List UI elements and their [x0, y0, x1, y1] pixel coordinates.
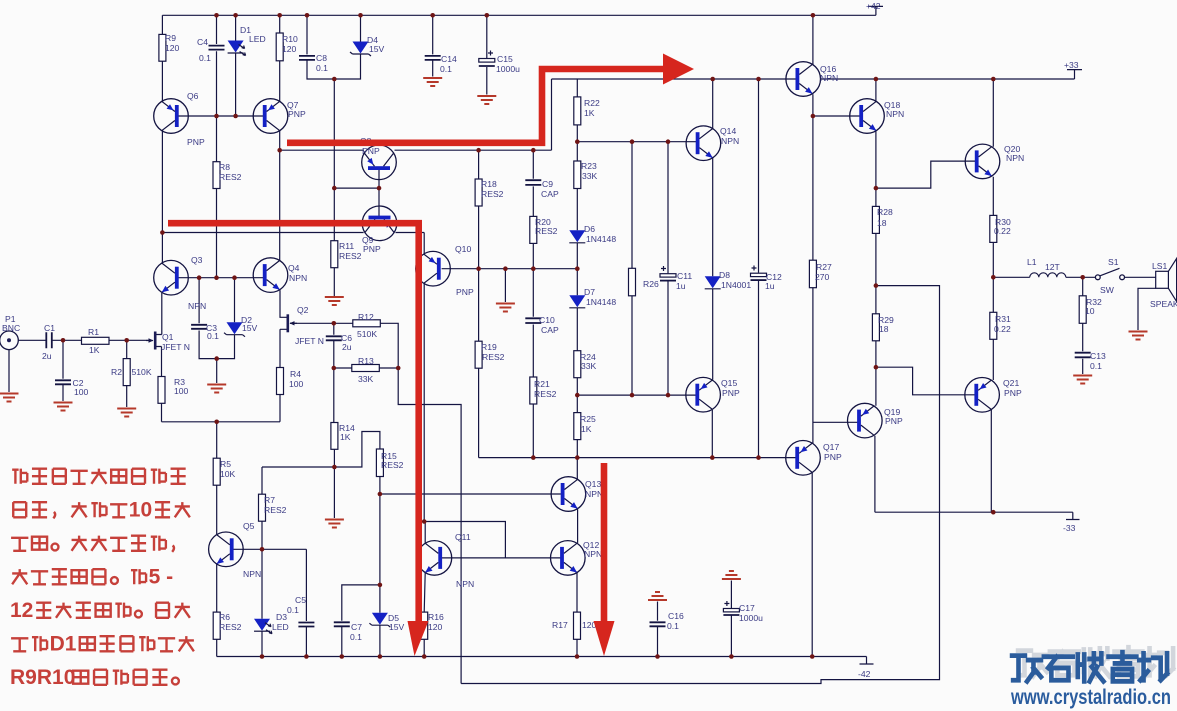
- wire: [479, 457, 798, 459]
- svg-text:15V: 15V: [369, 44, 385, 54]
- svg-text:C7: C7: [351, 622, 362, 632]
- diode D6 1N4148: [569, 230, 585, 243]
- capacitor C9: [525, 180, 541, 185]
- svg-text:1K: 1K: [581, 424, 592, 434]
- svg-text:12: 12: [10, 599, 33, 622]
- junction: [874, 77, 879, 82]
- svg-text:NPN: NPN: [188, 301, 206, 311]
- wire: [486, 15, 488, 94]
- resistor R27: [809, 260, 816, 288]
- junction: [214, 114, 219, 119]
- junction: [756, 455, 761, 460]
- svg-text:0.22: 0.22: [994, 226, 1011, 236]
- wire: [261, 467, 263, 657]
- junction: [655, 654, 660, 659]
- svg-text:RES2: RES2: [534, 389, 557, 399]
- transistor Q12: [551, 541, 586, 576]
- junction: [575, 393, 580, 398]
- wire: [432, 15, 434, 76]
- svg-text:1K: 1K: [89, 345, 100, 355]
- wire: [62, 340, 64, 401]
- svg-text:R11: R11: [339, 241, 354, 251]
- svg-text:10: 10: [1085, 306, 1095, 316]
- svg-text:510K: 510K: [357, 329, 377, 339]
- junction: [810, 654, 815, 659]
- wire: [991, 277, 993, 512]
- speaker LS1: [1156, 271, 1169, 288]
- junction: [476, 266, 481, 271]
- svg-text:R9: R9: [165, 33, 176, 43]
- resistor R12: [353, 320, 381, 327]
- resistor R21: [530, 377, 537, 404]
- svg-text:R22: R22: [584, 98, 600, 108]
- capacitor C11 electrolytic: [660, 274, 676, 277]
- wire: [333, 449, 335, 518]
- junction: [214, 420, 219, 425]
- transistor Q17: [786, 441, 821, 476]
- wire: [812, 94, 861, 656]
- wire: [424, 573, 425, 657]
- resistor R10: [276, 33, 283, 61]
- ground Q10 base network: [496, 304, 515, 312]
- wire: [162, 421, 281, 423]
- resistor R18: [475, 179, 482, 206]
- junction: [531, 148, 536, 153]
- ground under C2: [54, 403, 73, 411]
- wire: [1138, 288, 1156, 330]
- junction: [233, 114, 238, 119]
- svg-text:100: 100: [74, 387, 89, 397]
- svg-text:R25: R25: [580, 414, 596, 424]
- resistor R13: [352, 365, 380, 372]
- junction: [575, 455, 580, 460]
- resistor R5: [213, 458, 220, 485]
- junction: [197, 275, 202, 280]
- svg-text:NPN: NPN: [289, 273, 307, 283]
- svg-text:R23: R23: [581, 161, 597, 171]
- transistor Q4: [253, 258, 288, 293]
- wire: [667, 142, 669, 395]
- wire: [442, 268, 578, 270]
- capacitor C7: [334, 622, 350, 626]
- wire: [334, 169, 379, 218]
- wire: [333, 79, 335, 295]
- junction: [811, 114, 816, 119]
- junction: [396, 366, 401, 371]
- wire: [992, 79, 994, 277]
- svg-text:1N4148: 1N4148: [586, 234, 616, 244]
- svg-text:R6: R6: [219, 612, 230, 622]
- ground under R14: [325, 520, 344, 528]
- svg-text:0.1: 0.1: [199, 53, 211, 63]
- resistor R22: [574, 97, 581, 125]
- wire: [216, 116, 218, 278]
- wire: [379, 477, 381, 585]
- svg-text:PNP: PNP: [362, 146, 380, 156]
- resistor R32: [1079, 296, 1086, 324]
- transistor Q3: [154, 260, 189, 295]
- svg-text:NPN: NPN: [456, 579, 474, 589]
- svg-text:2u: 2u: [42, 351, 52, 361]
- wire: [712, 79, 714, 380]
- svg-text:RES2: RES2: [481, 189, 504, 199]
- svg-text:0.1: 0.1: [287, 605, 299, 615]
- junction: [874, 186, 879, 191]
- svg-text:Q21: Q21: [1003, 378, 1019, 388]
- node +42 terminal: [868, 6, 883, 15]
- svg-text:RES2: RES2: [381, 460, 404, 470]
- wire: [126, 340, 128, 407]
- svg-text:Q17: Q17: [823, 442, 839, 452]
- junction: [422, 519, 427, 524]
- svg-text:NPN: NPN: [721, 136, 739, 146]
- transistor Q2 JFET: [282, 314, 298, 332]
- junction: [378, 492, 383, 497]
- red text line 4: [12, 569, 27, 584]
- ground under speaker: [1129, 332, 1148, 340]
- wire: [199, 278, 234, 383]
- resistor R19: [475, 341, 482, 368]
- wire: [279, 15, 281, 101]
- wire: [290, 322, 334, 324]
- junction: [531, 455, 536, 460]
- transistor Q10: [416, 251, 451, 286]
- junction: [332, 321, 337, 326]
- capacitor C6: [326, 336, 342, 340]
- svg-text:C5: C5: [295, 595, 306, 605]
- svg-text:PNP: PNP: [288, 109, 306, 119]
- junction: [503, 266, 508, 271]
- svg-text:D7: D7: [584, 287, 595, 297]
- transistor Q5: [209, 532, 244, 567]
- wire: [424, 522, 505, 558]
- resistor R28: [872, 206, 879, 233]
- svg-text:NPN: NPN: [886, 109, 904, 119]
- svg-text:1N4148: 1N4148: [586, 297, 616, 307]
- capacitor C10: [525, 318, 541, 323]
- wire: [232, 549, 307, 656]
- capacitor C15 electrolytic: [479, 59, 495, 63]
- svg-text:PNP: PNP: [824, 452, 842, 462]
- junction: [476, 148, 481, 153]
- junction: [214, 13, 219, 18]
- resistor R16: [421, 612, 428, 639]
- wire: [461, 286, 939, 684]
- svg-text:PNP: PNP: [885, 416, 903, 426]
- svg-text:R1: R1: [88, 327, 99, 337]
- svg-text:R12: R12: [358, 312, 374, 322]
- svg-text:1K: 1K: [584, 108, 595, 118]
- wire: [876, 367, 976, 395]
- junction: [233, 13, 238, 18]
- wire: [812, 15, 814, 64]
- resistor R3: [158, 377, 165, 404]
- svg-text:Q5: Q5: [243, 521, 255, 531]
- svg-text:R27: R27: [816, 262, 832, 272]
- svg-text:C17: C17: [739, 603, 755, 613]
- svg-text:LS1: LS1: [1152, 261, 1168, 271]
- junction: [277, 13, 282, 18]
- svg-text:CAP: CAP: [541, 189, 559, 199]
- junction: [377, 186, 382, 191]
- wire: [711, 410, 713, 458]
- wire: [161, 131, 163, 263]
- wire: [280, 149, 552, 151]
- capacitor C4: [209, 46, 225, 50]
- junction: [666, 139, 671, 144]
- junction: [305, 13, 310, 18]
- capacitor C14: [425, 56, 441, 60]
- wire: [532, 150, 534, 457]
- wire: [307, 15, 361, 79]
- wire: [178, 277, 265, 279]
- junction: [332, 465, 337, 470]
- svg-text:BNC: BNC: [2, 323, 20, 333]
- transistor Q20: [965, 144, 1000, 179]
- resistor R6: [213, 612, 220, 639]
- transistor Q14: [686, 126, 721, 161]
- red arrow annotation 3: [601, 463, 608, 622]
- svg-text:Q4: Q4: [288, 263, 300, 273]
- wire: [262, 432, 380, 468]
- connector P1 BNC: [0, 331, 18, 350]
- wire: [657, 602, 659, 657]
- red arrow annotation 2: [168, 223, 419, 622]
- ground under R11: [333, 295, 335, 297]
- svg-text:PNP: PNP: [722, 388, 740, 398]
- svg-text:Q13: Q13: [585, 479, 601, 489]
- wire: [576, 509, 579, 656]
- resistor R29: [872, 314, 879, 341]
- wire: [380, 493, 561, 495]
- resistor R23: [574, 161, 581, 189]
- svg-text:RES2: RES2: [535, 226, 558, 236]
- svg-text:C16: C16: [668, 611, 684, 621]
- junction: [729, 654, 734, 659]
- svg-text:0.1: 0.1: [667, 621, 679, 631]
- watermark site name: [1012, 656, 1041, 682]
- svg-text:510K: 510K: [132, 367, 152, 377]
- svg-text:LED: LED: [272, 622, 289, 632]
- wire: [1082, 277, 1084, 374]
- resistor R30: [990, 215, 997, 242]
- wire: [161, 15, 163, 101]
- switch S1 SW: [1095, 275, 1100, 280]
- capacitor C5: [298, 623, 314, 627]
- junction: [666, 393, 671, 398]
- diode D8 1N4001: [705, 276, 721, 289]
- svg-text:R16: R16: [428, 612, 444, 622]
- svg-text:R28: R28: [877, 207, 893, 217]
- svg-text:33K: 33K: [358, 374, 374, 384]
- svg-text:R8: R8: [219, 162, 230, 172]
- resistor R11: [331, 241, 338, 268]
- svg-text:S1: S1: [1108, 257, 1119, 267]
- svg-text:www.crystalradio.cn: www.crystalradio.cn: [1010, 686, 1171, 709]
- junction: [630, 393, 635, 398]
- transistor Q8: [362, 145, 397, 180]
- ground under P1: [0, 394, 19, 402]
- svg-text:C4: C4: [197, 37, 208, 47]
- svg-text:RES2: RES2: [339, 251, 362, 261]
- svg-text:1N4001: 1N4001: [721, 280, 751, 290]
- svg-text:+42: +42: [866, 1, 881, 11]
- svg-text:RES2: RES2: [219, 622, 242, 632]
- transistor Q13: [551, 477, 586, 512]
- transistor Q21: [965, 378, 1000, 413]
- capacitor C13: [1075, 353, 1091, 358]
- ground under C3 D2: [207, 385, 226, 393]
- svg-text:PNP: PNP: [363, 244, 381, 254]
- svg-text:33K: 33K: [582, 171, 598, 181]
- wire: [18, 339, 150, 341]
- red text line 3: [11, 538, 28, 551]
- junction: [214, 275, 219, 280]
- ground under R2: [117, 409, 136, 417]
- junction: [991, 510, 996, 515]
- wire: [8, 350, 10, 392]
- diode D1 LED: [228, 41, 246, 56]
- transistor Q7: [253, 99, 288, 134]
- svg-text:SPEAKER: SPEAKER: [1150, 299, 1177, 309]
- junction: [304, 654, 309, 659]
- svg-text:Q3: Q3: [191, 255, 203, 265]
- svg-text:CAP: CAP: [541, 325, 559, 335]
- svg-text:0.22: 0.22: [994, 324, 1011, 334]
- wire: [875, 79, 977, 512]
- svg-text:R4: R4: [290, 369, 301, 379]
- svg-text:0.1: 0.1: [207, 331, 219, 341]
- svg-text:5 -: 5 -: [149, 566, 174, 589]
- wire: [576, 79, 578, 479]
- svg-text:0.1: 0.1: [316, 63, 328, 73]
- diode D5 zener 15V: [369, 613, 390, 628]
- svg-text:SW: SW: [1100, 285, 1115, 295]
- capacitor C2: [55, 380, 71, 384]
- wire +42 top bus: [162, 14, 876, 16]
- svg-text:C13: C13: [1090, 351, 1106, 361]
- watermark ghost: [1018, 651, 1047, 677]
- svg-text:15V: 15V: [389, 622, 405, 632]
- resistor R4: [277, 368, 284, 395]
- junction: [61, 338, 66, 343]
- wire: [552, 78, 1075, 80]
- wire: [333, 323, 335, 422]
- svg-text:C11: C11: [677, 271, 692, 281]
- svg-text:NPN: NPN: [585, 489, 603, 499]
- wire: [993, 276, 1095, 278]
- wire: [423, 284, 425, 522]
- svg-text:R17: R17: [552, 620, 568, 630]
- svg-text:270: 270: [815, 272, 830, 282]
- junction: [232, 275, 237, 280]
- resistor R26: [629, 268, 636, 296]
- svg-text:D1: D1: [50, 633, 77, 656]
- ground under C15: [477, 96, 496, 104]
- wire: [216, 422, 218, 535]
- wire: [235, 15, 237, 116]
- svg-text:0.1: 0.1: [350, 632, 362, 642]
- svg-text:-42: -42: [858, 669, 871, 679]
- wire: [279, 131, 281, 260]
- svg-text:JFET N: JFET N: [161, 342, 190, 352]
- svg-text:Q15: Q15: [721, 378, 737, 388]
- red text line 6: [11, 638, 28, 651]
- resistor R1: [82, 337, 110, 344]
- wire: [440, 557, 562, 559]
- svg-text:12T: 12T: [1045, 262, 1061, 272]
- svg-text:120: 120: [165, 43, 180, 53]
- junction: [710, 455, 715, 460]
- resistor R9: [159, 34, 166, 61]
- resistor R14: [331, 423, 338, 450]
- node +33 terminal: [1067, 70, 1082, 79]
- svg-text:R18: R18: [481, 179, 497, 189]
- wire: [334, 367, 398, 369]
- svg-text:C9: C9: [542, 179, 553, 189]
- svg-text:R7: R7: [264, 495, 275, 505]
- junction: [531, 266, 536, 271]
- svg-text:100: 100: [174, 386, 189, 396]
- svg-text:2u: 2u: [342, 342, 352, 352]
- svg-text:15V: 15V: [242, 323, 258, 333]
- wire: [504, 269, 506, 302]
- svg-text:10: 10: [129, 499, 152, 522]
- junction: [124, 338, 129, 343]
- transistor Q19: [848, 403, 883, 438]
- junction: [575, 266, 580, 271]
- svg-text:+33: +33: [1064, 60, 1079, 70]
- svg-text:C14: C14: [441, 54, 457, 64]
- svg-text:18: 18: [879, 324, 889, 334]
- junction: [575, 139, 580, 144]
- red text line 1: [12, 469, 27, 484]
- junction: [340, 654, 345, 659]
- inductor L1 12T: [1030, 273, 1066, 278]
- junction: [575, 654, 580, 659]
- wire: [216, 15, 218, 116]
- wire: [342, 585, 380, 657]
- svg-text:1K: 1K: [340, 432, 351, 442]
- wire: [178, 115, 265, 117]
- junction: [332, 366, 337, 371]
- svg-text:R10: R10: [282, 34, 298, 44]
- resistor R17: [574, 612, 581, 639]
- wire: [334, 323, 461, 683]
- wire: [217, 656, 867, 658]
- transistor Q11: [417, 541, 452, 576]
- diode D2 zener 15V: [224, 322, 245, 337]
- svg-text:RES2: RES2: [482, 352, 505, 362]
- junction: [358, 13, 363, 18]
- capacitor C12 electrolytic: [751, 273, 767, 276]
- wire: [875, 511, 1073, 513]
- svg-text:R2: R2: [111, 367, 122, 377]
- svg-text:C1: C1: [44, 323, 55, 333]
- node -42 terminal: [860, 657, 874, 665]
- svg-text:R9R10: R9R10: [10, 666, 75, 689]
- junction: [430, 13, 435, 18]
- transistor Q1 JFET: [146, 332, 162, 350]
- svg-text:1u: 1u: [765, 281, 775, 291]
- svg-text:R26: R26: [643, 279, 659, 289]
- wire: [162, 233, 424, 254]
- junction: [332, 77, 337, 82]
- capacitor C3: [191, 325, 207, 329]
- junction: [710, 77, 715, 82]
- svg-text:NPN: NPN: [820, 73, 838, 83]
- junction: [874, 365, 879, 370]
